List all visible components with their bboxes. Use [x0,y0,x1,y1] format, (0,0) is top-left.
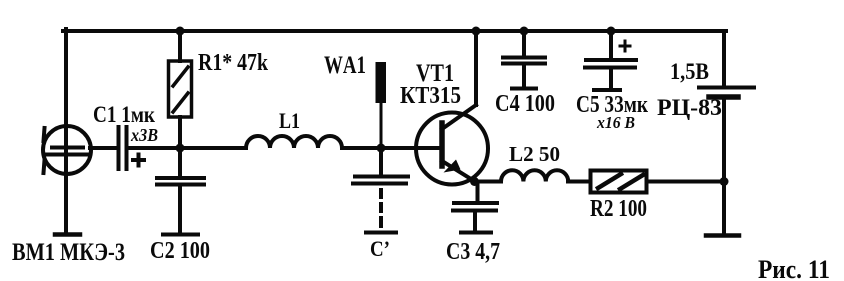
transistor VT1 [416,105,488,185]
node A junction dot [176,144,185,153]
label C5 33mk [576,92,648,118]
label C3 4,7 [446,239,500,265]
svg-text:WА1: WА1 [324,52,366,79]
wire top supply rail [63,29,726,33]
microphone BM1 [43,126,91,174]
wire microphone bottom lead [64,156,68,232]
capacitor C4 [503,58,545,88]
ground terminal of C4 [512,87,536,91]
wire C1 to node A [128,146,180,150]
wire R2 to battery [647,180,724,184]
wire R1 to node A [178,117,182,148]
resistor R2 [591,171,647,193]
svg-text:х16 В: х16 В [596,113,635,132]
wire node A to C2 [178,148,182,176]
svg-text:L1: L1 [279,108,300,133]
inductor L1 [246,136,342,148]
battery GB1 1.5V RC-83 [699,88,754,98]
wire node A to L1 [180,146,246,150]
wire microphone to C1 [90,146,116,150]
junction dot C5 on rail [607,27,616,36]
label KT315 [400,83,461,109]
svg-text:L2 50: L2 50 [509,142,560,166]
label C5 voltage x16V [596,113,635,132]
svg-text:КТ315: КТ315 [400,83,461,109]
svg-text:ВМ1 МКЭ-3: ВМ1 МКЭ-3 [12,239,125,266]
svg-text:С1 1мк: С1 1мк [93,102,156,127]
junction dot battery and R2 wire [720,177,729,186]
svg-text:С4 100: С4 100 [495,91,555,117]
svg-text:1,5В: 1,5В [670,59,709,84]
label BM1 MKE-3 [12,239,125,266]
wire rail to C5 [609,31,613,57]
capacitor C5 [585,60,636,88]
antenna WA1 [376,62,387,148]
label L1 [279,108,300,133]
capacitor C3 [453,203,497,230]
svg-text:С’: С’ [370,236,390,261]
junction dot collector on rail [472,27,481,36]
svg-text:С3 4,7: С3 4,7 [446,239,500,265]
wire battery to bottom terminal [722,99,726,233]
label C1 plus [131,153,146,168]
wire rail to battery [722,31,726,86]
wire left vertical from rail to microphone [64,29,68,151]
capacitor C' with dashed leads [353,150,408,226]
node B junction dot [377,144,386,153]
ground terminal of C3 [461,231,491,235]
wire C2 bottom lead [178,186,182,232]
label 1,5V [670,59,709,84]
label C1 voltage x3V [130,125,158,145]
svg-text:R1* 47k: R1* 47k [198,50,269,76]
label L2 50 [509,142,560,166]
wire rail to R1 [178,31,182,61]
capacitor C2 [157,178,204,185]
capacitor C1 [119,127,127,169]
label VT1 [416,60,454,87]
junction dot C4 on rail [520,27,529,36]
wire L2 to R2 [568,180,590,184]
wire emitter node to L2 [475,180,502,184]
junction dot R1 top on rail [176,27,185,36]
label C4 100 [495,91,555,117]
svg-text:РЦ-83: РЦ-83 [657,95,722,120]
ground terminal of BM1 [55,232,80,237]
wire rail to collector [474,31,478,105]
resistor R1 [169,61,192,117]
wire rail to C4 [522,31,526,56]
inductor L2 [501,170,568,181]
label R1* 47k [198,50,269,76]
label C-prime [370,236,390,261]
label WA1 [324,52,366,79]
label C1 1mk [93,102,156,127]
caption Fig. 11 [758,255,830,281]
ground terminal of C' [366,231,396,235]
svg-text:х3В: х3В [130,125,158,145]
ground terminal of C2 [163,233,198,237]
label R2 100 [590,196,647,222]
label RC-83 [657,95,722,120]
wire L1 to node B and transistor base [342,146,441,150]
ground terminal of battery [706,233,739,238]
wire emitter node to C3 [476,182,480,202]
node C emitter junction dot [470,177,479,186]
ground terminal of C5 [594,88,620,92]
svg-text:С2 100: С2 100 [150,238,210,264]
capacitor C5 polarity plus [620,41,630,51]
label C2 100 [150,238,210,264]
svg-text:R2 100: R2 100 [590,196,647,222]
svg-text:Рис. 11: Рис. 11 [758,255,830,281]
